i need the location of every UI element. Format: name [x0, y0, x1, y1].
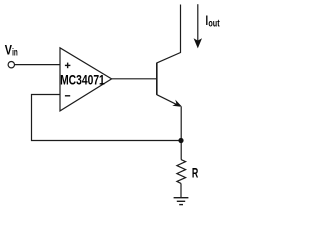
svg-text:V: V [5, 42, 12, 57]
svg-text:in: in [12, 47, 18, 58]
svg-text:out: out [208, 19, 220, 30]
svg-text:R: R [192, 165, 198, 181]
svg-text:MC34071: MC34071 [60, 71, 105, 87]
